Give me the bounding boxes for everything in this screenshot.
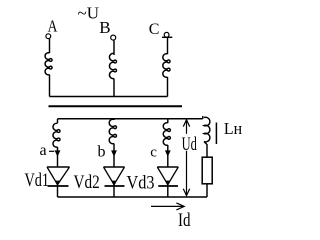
svg-text:Vd1: Vd1 (25, 170, 50, 191)
svg-text:C: C (149, 21, 160, 38)
svg-text:c: c (150, 145, 157, 161)
svg-text:Vd2: Vd2 (74, 172, 100, 193)
svg-text:~U: ~U (78, 4, 99, 23)
svg-text:B: B (99, 18, 110, 37)
svg-text:b: b (98, 144, 106, 161)
svg-text:Lн: Lн (224, 119, 242, 138)
svg-text:A: A (48, 17, 58, 36)
svg-text:a: a (40, 142, 47, 159)
svg-text:Id: Id (178, 211, 191, 231)
svg-text:Ud: Ud (182, 134, 198, 155)
svg-text:Vd3: Vd3 (127, 173, 155, 194)
